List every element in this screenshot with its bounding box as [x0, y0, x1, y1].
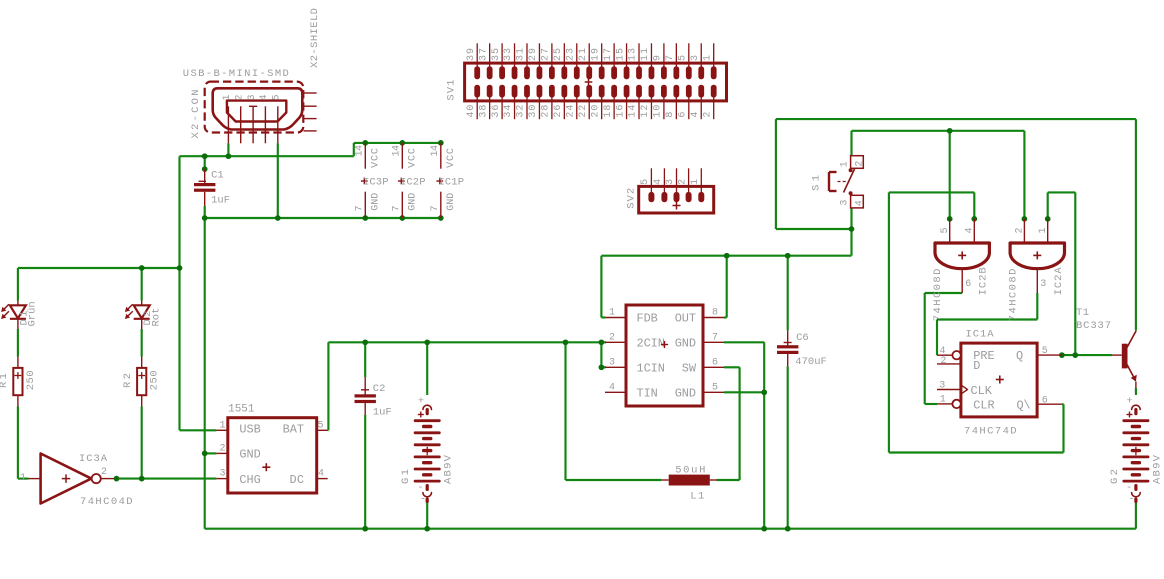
svg-text:D: D: [973, 359, 980, 373]
svg-text:3: 3: [609, 357, 615, 368]
svg-text:3: 3: [220, 469, 226, 480]
svg-text:DC: DC: [290, 473, 305, 487]
svg-text:26: 26: [553, 105, 564, 118]
svg-text:15: 15: [615, 48, 626, 61]
svg-text:3: 3: [690, 55, 701, 61]
svg-text:1: 1: [690, 179, 701, 185]
svg-text:1: 1: [20, 473, 26, 484]
svg-text:20: 20: [590, 105, 601, 118]
svg-text:19: 19: [590, 48, 601, 61]
svg-text:2: 2: [702, 112, 713, 118]
svg-text:2: 2: [101, 467, 107, 478]
svg-text:CLK: CLK: [971, 384, 993, 398]
svg-text:5: 5: [640, 179, 651, 185]
svg-text:4: 4: [854, 200, 865, 206]
svg-text:1: 1: [609, 308, 615, 319]
svg-text:14: 14: [355, 145, 366, 157]
svg-text:1: 1: [220, 420, 226, 431]
svg-text:74HC74D: 74HC74D: [964, 426, 1017, 438]
svg-text:35: 35: [491, 48, 502, 61]
svg-text:74HC08D: 74HC08D: [1007, 269, 1019, 322]
svg-text:14: 14: [430, 145, 441, 157]
svg-text:C1: C1: [211, 169, 224, 181]
svg-text:2: 2: [940, 356, 946, 367]
svg-text:4: 4: [653, 179, 664, 185]
svg-text:-: -: [420, 494, 426, 506]
svg-text:50uH: 50uH: [675, 464, 705, 476]
svg-text:14: 14: [628, 105, 639, 118]
svg-text:BAT: BAT: [283, 422, 304, 436]
svg-text:5: 5: [677, 55, 688, 61]
svg-text:18: 18: [603, 105, 614, 118]
svg-text:9: 9: [653, 55, 664, 61]
svg-text:GND: GND: [675, 387, 696, 401]
svg-text:6: 6: [965, 279, 971, 290]
svg-text:17: 17: [603, 48, 614, 61]
svg-text:IC2A: IC2A: [1053, 267, 1065, 296]
svg-text:1551: 1551: [228, 404, 255, 416]
svg-text:2CIN: 2CIN: [637, 337, 665, 351]
svg-text:5: 5: [272, 94, 283, 100]
svg-text:37: 37: [478, 48, 489, 61]
svg-text:USB: USB: [239, 422, 260, 436]
svg-text:GND: GND: [446, 193, 457, 211]
svg-text:74HC04D: 74HC04D: [80, 496, 133, 508]
svg-text:2: 2: [1015, 227, 1026, 233]
svg-text:3: 3: [247, 94, 258, 100]
svg-text:6: 6: [677, 112, 688, 118]
svg-text:3: 3: [839, 200, 850, 206]
svg-text:VCC: VCC: [371, 148, 382, 168]
svg-text:22: 22: [578, 105, 589, 118]
svg-text:14: 14: [392, 145, 403, 157]
svg-text:4: 4: [259, 94, 270, 100]
svg-text:1: 1: [222, 94, 233, 100]
svg-text:1uF: 1uF: [211, 194, 230, 206]
svg-text:25: 25: [553, 48, 564, 61]
svg-text:8: 8: [712, 308, 718, 319]
svg-text:1: 1: [940, 395, 946, 406]
svg-text:VCC: VCC: [446, 148, 457, 168]
svg-text:34: 34: [503, 105, 514, 118]
svg-text:+: +: [1126, 396, 1132, 408]
svg-text:12: 12: [640, 105, 651, 118]
svg-text:USB-B-MINI-SMD: USB-B-MINI-SMD: [183, 68, 289, 80]
svg-text:-: -: [417, 482, 423, 494]
svg-text:IC2P: IC2P: [400, 176, 426, 188]
svg-text:1: 1: [1038, 227, 1049, 233]
svg-text:24: 24: [565, 105, 576, 118]
svg-text:23: 23: [565, 48, 576, 61]
svg-text:1uF: 1uF: [373, 406, 392, 418]
svg-text:21: 21: [578, 48, 589, 61]
svg-text:IC3P: IC3P: [363, 176, 389, 188]
svg-text:33: 33: [503, 48, 514, 61]
svg-text:BC337: BC337: [1076, 320, 1111, 332]
svg-text:OUT: OUT: [675, 312, 696, 326]
svg-text:36: 36: [491, 105, 502, 118]
svg-text:10: 10: [653, 105, 664, 118]
svg-text:39: 39: [466, 48, 477, 61]
svg-text:13: 13: [628, 48, 639, 61]
svg-text:27: 27: [541, 48, 552, 61]
svg-text:2: 2: [235, 94, 246, 100]
svg-text:2: 2: [220, 443, 226, 454]
svg-text:4: 4: [690, 112, 701, 118]
svg-text:2: 2: [854, 161, 865, 167]
svg-text:GND: GND: [408, 193, 419, 211]
svg-text:T1: T1: [1076, 307, 1089, 319]
svg-text:250: 250: [25, 370, 37, 390]
svg-text:2: 2: [609, 332, 615, 343]
svg-text:GND: GND: [675, 337, 696, 351]
svg-text:L1: L1: [690, 490, 704, 502]
svg-text:C6: C6: [796, 332, 809, 344]
svg-text:5: 5: [1042, 346, 1048, 357]
svg-text:7: 7: [712, 332, 718, 343]
svg-text:40: 40: [466, 105, 477, 118]
svg-text:IC3A: IC3A: [79, 453, 108, 465]
svg-text:IC1A: IC1A: [966, 329, 995, 341]
svg-text:-: -: [1128, 494, 1134, 506]
svg-text:29: 29: [528, 48, 539, 61]
svg-text:6: 6: [1042, 395, 1048, 406]
svg-text:FDB: FDB: [637, 312, 658, 326]
svg-text:+: +: [418, 396, 424, 408]
svg-text:TIN: TIN: [637, 387, 658, 401]
svg-text:3: 3: [939, 381, 945, 392]
svg-text:31: 31: [516, 48, 527, 61]
svg-text:7: 7: [665, 55, 676, 61]
svg-text:AB9V: AB9V: [443, 454, 455, 484]
svg-text:Grün: Grün: [27, 301, 39, 326]
svg-text:8: 8: [665, 112, 676, 118]
svg-text:7: 7: [392, 205, 403, 211]
svg-text:IC2B: IC2B: [978, 267, 990, 295]
svg-text:2: 2: [677, 179, 688, 185]
svg-text:4: 4: [965, 227, 976, 233]
svg-text:Q\: Q\: [1017, 399, 1031, 413]
svg-text:1: 1: [702, 55, 713, 61]
svg-text:7: 7: [430, 205, 441, 211]
svg-text:74HC08D: 74HC08D: [932, 269, 944, 322]
svg-text:C2: C2: [373, 383, 386, 395]
svg-text:SV1: SV1: [446, 80, 458, 101]
svg-text:38: 38: [478, 105, 489, 118]
svg-text:5: 5: [712, 382, 718, 393]
svg-text:AB9V: AB9V: [1151, 454, 1163, 484]
svg-text:CHG: CHG: [239, 473, 260, 487]
svg-text:Rot: Rot: [151, 308, 163, 327]
svg-text:250: 250: [149, 370, 161, 390]
svg-text:-: -: [1126, 482, 1132, 494]
svg-text:Q: Q: [1016, 349, 1023, 363]
svg-text:IC1P: IC1P: [439, 176, 465, 188]
svg-text:GND: GND: [371, 193, 382, 211]
svg-text:SW: SW: [682, 362, 697, 376]
svg-text:4: 4: [318, 469, 324, 480]
svg-text:32: 32: [516, 105, 527, 118]
svg-text:CLR: CLR: [973, 399, 994, 413]
svg-text:30: 30: [528, 105, 539, 118]
svg-text:7: 7: [355, 205, 366, 211]
svg-text:16: 16: [615, 105, 626, 118]
svg-text:5: 5: [940, 227, 951, 233]
svg-text:6: 6: [712, 357, 718, 368]
svg-text:GND: GND: [239, 448, 260, 462]
svg-text:VCC: VCC: [408, 148, 419, 168]
svg-text:11: 11: [640, 48, 651, 61]
svg-text:1CIN: 1CIN: [637, 362, 665, 376]
svg-text:1: 1: [839, 161, 850, 167]
svg-text:5: 5: [318, 420, 324, 431]
svg-text:3: 3: [1040, 279, 1046, 290]
svg-text:3: 3: [665, 179, 676, 185]
svg-text:4: 4: [609, 382, 615, 393]
svg-text:28: 28: [541, 105, 552, 118]
svg-text:470uF: 470uF: [795, 356, 827, 368]
svg-text:SV2: SV2: [626, 188, 638, 209]
svg-text:X2-SHIELD: X2-SHIELD: [309, 8, 321, 68]
